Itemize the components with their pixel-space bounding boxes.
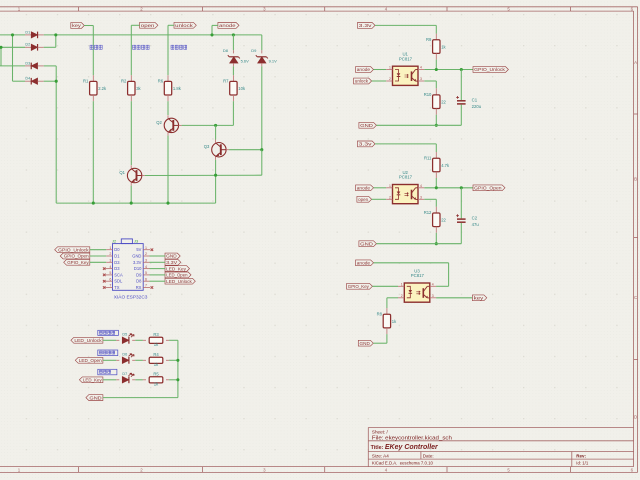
svg-text:22: 22 bbox=[441, 100, 446, 105]
svg-text:47u: 47u bbox=[472, 222, 480, 227]
svg-text:3: 3 bbox=[420, 77, 422, 81]
svg-text:D9: D9 bbox=[251, 48, 257, 53]
svg-text:R10: R10 bbox=[424, 92, 432, 97]
svg-text:GPIO_Key: GPIO_Key bbox=[348, 284, 370, 289]
svg-text:anode: anode bbox=[357, 67, 371, 72]
svg-text:D5: D5 bbox=[122, 332, 127, 336]
svg-text:3.3v: 3.3v bbox=[359, 142, 373, 147]
svg-text:LED_Open: LED_Open bbox=[79, 358, 102, 363]
svg-text:C2: C2 bbox=[472, 216, 478, 221]
svg-text:R3: R3 bbox=[153, 332, 159, 337]
svg-text:GND: GND bbox=[132, 254, 141, 259]
svg-text:D8: D8 bbox=[223, 48, 229, 53]
svg-text:D6: D6 bbox=[122, 352, 127, 356]
svg-text:5: 5 bbox=[145, 271, 147, 275]
svg-text:R2: R2 bbox=[121, 79, 127, 84]
svg-text:File: ekeycontroller.kicad_sch: File: ekeycontroller.kicad_sch bbox=[372, 436, 452, 442]
svg-text:D1: D1 bbox=[25, 30, 30, 34]
svg-text:1: 1 bbox=[389, 184, 391, 188]
svg-text:3: 3 bbox=[109, 259, 111, 263]
svg-text:2: 2 bbox=[109, 252, 111, 256]
svg-text:22: 22 bbox=[441, 218, 446, 223]
svg-text:TX: TX bbox=[114, 285, 120, 290]
svg-text:Id: 1/1: Id: 1/1 bbox=[576, 461, 589, 466]
svg-text:Date:: Date: bbox=[423, 453, 434, 458]
svg-text:2: 2 bbox=[389, 195, 391, 199]
svg-text:XIAO ESP32C3: XIAO ESP32C3 bbox=[114, 294, 148, 300]
svg-text:3.3V: 3.3V bbox=[166, 260, 178, 265]
svg-text:Title: EKey Controller: Title: EKey Controller bbox=[371, 444, 439, 451]
svg-text:5V: 5V bbox=[136, 247, 141, 252]
svg-text:R6: R6 bbox=[158, 79, 164, 84]
svg-text:3: 3 bbox=[432, 294, 434, 298]
svg-text:Sheet: /: Sheet: / bbox=[372, 430, 389, 435]
svg-text:2: 2 bbox=[389, 77, 391, 81]
svg-text:D2: D2 bbox=[114, 260, 120, 265]
svg-text:9.1V: 9.1V bbox=[269, 59, 278, 64]
svg-text:unlock: unlock bbox=[355, 79, 369, 84]
svg-text:SCA: SCA bbox=[114, 272, 123, 277]
svg-text:GND: GND bbox=[360, 341, 371, 346]
svg-text:1: 1 bbox=[109, 246, 111, 250]
svg-text:D4: D4 bbox=[25, 77, 30, 81]
svg-text:6: 6 bbox=[145, 277, 147, 281]
svg-text:KiCad E.D.A. eeschema 7.0.10: KiCad E.D.A. eeschema 7.0.10 bbox=[372, 461, 434, 466]
svg-text:LED_Open: LED_Open bbox=[166, 273, 188, 278]
svg-text:4: 4 bbox=[432, 282, 434, 286]
svg-text:1: 1 bbox=[145, 246, 147, 250]
svg-text:PC817: PC817 bbox=[399, 175, 413, 180]
svg-text:1: 1 bbox=[389, 66, 391, 70]
svg-text:key: key bbox=[72, 23, 82, 28]
svg-text:220u: 220u bbox=[472, 104, 482, 109]
svg-text:PC817: PC817 bbox=[411, 273, 425, 278]
svg-text:D0: D0 bbox=[114, 247, 120, 252]
svg-text:GPIO_Open: GPIO_Open bbox=[474, 185, 502, 190]
svg-text:1.8k: 1.8k bbox=[173, 86, 182, 91]
svg-text:4: 4 bbox=[145, 265, 147, 269]
svg-text:2: 2 bbox=[401, 294, 403, 298]
svg-text:GND: GND bbox=[166, 254, 177, 259]
svg-text:D3: D3 bbox=[25, 61, 30, 65]
svg-text:R5: R5 bbox=[153, 372, 159, 377]
svg-text:C1: C1 bbox=[472, 97, 478, 102]
svg-text:5.6V: 5.6V bbox=[241, 59, 250, 64]
svg-text:3: 3 bbox=[420, 195, 422, 199]
svg-text:7: 7 bbox=[145, 284, 147, 288]
svg-text:R7: R7 bbox=[223, 79, 229, 84]
svg-text:C: C bbox=[634, 295, 637, 300]
svg-text:3.3v: 3.3v bbox=[359, 23, 373, 28]
svg-text:D9: D9 bbox=[136, 272, 142, 277]
svg-text:2: 2 bbox=[145, 252, 147, 256]
svg-text:open: open bbox=[141, 23, 155, 28]
svg-text:GPIO_Key: GPIO_Key bbox=[67, 260, 89, 265]
svg-text:GND: GND bbox=[89, 395, 102, 400]
svg-text:anode: anode bbox=[219, 23, 236, 28]
svg-text:GPIO_Open: GPIO_Open bbox=[64, 254, 89, 259]
svg-text:R1: R1 bbox=[83, 79, 89, 84]
svg-text:4.7k: 4.7k bbox=[441, 163, 450, 168]
svg-text:R12: R12 bbox=[424, 210, 432, 215]
svg-text:10k: 10k bbox=[238, 86, 246, 91]
svg-text:GPIO_Unlock: GPIO_Unlock bbox=[58, 247, 89, 252]
svg-text:GND: GND bbox=[360, 241, 374, 246]
svg-text:unlock: unlock bbox=[175, 23, 194, 28]
svg-text:Size: A4: Size: A4 bbox=[372, 453, 389, 458]
svg-text:Q3: Q3 bbox=[204, 144, 210, 149]
svg-text:J3: J3 bbox=[134, 239, 138, 244]
svg-text:R4: R4 bbox=[153, 352, 159, 357]
svg-text:Rev:: Rev: bbox=[576, 454, 586, 459]
svg-text:3: 3 bbox=[145, 259, 147, 263]
svg-text:key: key bbox=[474, 295, 485, 300]
svg-text:D7: D7 bbox=[122, 372, 127, 376]
svg-text:R9: R9 bbox=[426, 37, 432, 42]
svg-text:1: 1 bbox=[401, 282, 403, 286]
svg-text:D: D bbox=[634, 415, 637, 420]
svg-text:Q1: Q1 bbox=[119, 170, 125, 175]
svg-text:LED_Key: LED_Key bbox=[83, 377, 102, 382]
svg-text:D8: D8 bbox=[136, 279, 142, 284]
svg-text:LED_Unlock: LED_Unlock bbox=[166, 279, 192, 284]
svg-text:open: open bbox=[358, 197, 368, 202]
svg-text:LED_Unlock: LED_Unlock bbox=[74, 338, 102, 343]
svg-text:R11: R11 bbox=[424, 155, 432, 160]
svg-text:D10: D10 bbox=[134, 266, 142, 271]
svg-text:6: 6 bbox=[109, 277, 111, 281]
svg-text:4: 4 bbox=[109, 265, 111, 269]
svg-text:anode: anode bbox=[357, 185, 371, 190]
svg-text:2.2k: 2.2k bbox=[98, 86, 107, 91]
svg-text:R8: R8 bbox=[377, 312, 383, 317]
svg-text:5: 5 bbox=[109, 271, 111, 275]
svg-text:LED_Key: LED_Key bbox=[166, 266, 187, 271]
svg-text:4: 4 bbox=[420, 66, 422, 70]
svg-text:anode: anode bbox=[357, 260, 371, 265]
svg-text:GPIO_Unlock: GPIO_Unlock bbox=[474, 67, 505, 72]
svg-text:Q2: Q2 bbox=[156, 120, 162, 125]
svg-text:D3: D3 bbox=[114, 266, 120, 271]
svg-text:PC817: PC817 bbox=[399, 56, 413, 61]
svg-text:GND: GND bbox=[360, 123, 374, 128]
svg-text:B: B bbox=[634, 177, 637, 182]
svg-text:RX: RX bbox=[136, 285, 142, 290]
svg-text:4: 4 bbox=[420, 184, 422, 188]
svg-text:D1: D1 bbox=[114, 254, 120, 259]
svg-text:3.3V: 3.3V bbox=[133, 260, 142, 265]
svg-text:SDL: SDL bbox=[114, 279, 123, 284]
svg-text:A: A bbox=[634, 60, 637, 65]
svg-text:D2: D2 bbox=[25, 43, 30, 47]
svg-text:7: 7 bbox=[109, 284, 111, 288]
svg-text:J2: J2 bbox=[112, 239, 116, 244]
